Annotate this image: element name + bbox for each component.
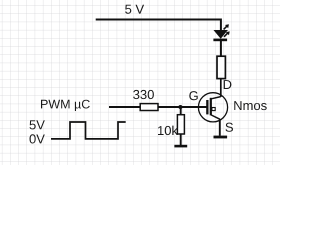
wire resistor to drain	[220, 79, 222, 97]
ground (source)	[214, 136, 228, 139]
level label 5V	[30, 120, 45, 129]
signal label PWM µC	[41, 100, 90, 111]
resistor R 330 body	[140, 104, 158, 111]
node junction gate/10k	[178, 105, 182, 109]
wire 10k to ground	[180, 134, 182, 145]
pin label S	[226, 123, 234, 132]
value label 10k	[158, 126, 178, 136]
LED light arrow 1	[224, 24, 229, 29]
wire source to ground	[219, 119, 221, 136]
resistor R_LED body	[217, 56, 225, 78]
wire junction to 10k	[180, 107, 182, 115]
ground (10k)	[174, 145, 187, 148]
resistor R 10k body	[177, 115, 184, 134]
LED D1 cathode bar	[213, 39, 227, 42]
LED D1 triangle	[214, 30, 227, 38]
wire LED cathode to resistor	[220, 41, 222, 56]
PWM waveform trace	[51, 122, 126, 139]
transistor drain lead (internal diagonal)	[211, 97, 220, 99]
transistor channel plate	[210, 98, 212, 116]
transistor bulk contact stub	[212, 108, 215, 111]
wire 5V rail	[96, 19, 221, 21]
level label 0V	[30, 134, 45, 143]
wire PWM input	[109, 106, 140, 108]
transistor gate plate	[206, 100, 208, 114]
grid background	[0, 0, 280, 165]
pin label G	[189, 91, 197, 100]
transistor source lead (internal diagonal)	[211, 115, 220, 119]
part label Nmos	[234, 101, 266, 110]
pin label D	[224, 80, 232, 89]
LED light arrow 2	[224, 31, 230, 36]
net label 5 V	[125, 5, 144, 14]
wire 330 to gate	[158, 106, 207, 108]
value label 330	[133, 90, 154, 99]
transistor Q1 Nmos body circle	[198, 93, 227, 122]
wire LED anode drop	[220, 19, 222, 31]
